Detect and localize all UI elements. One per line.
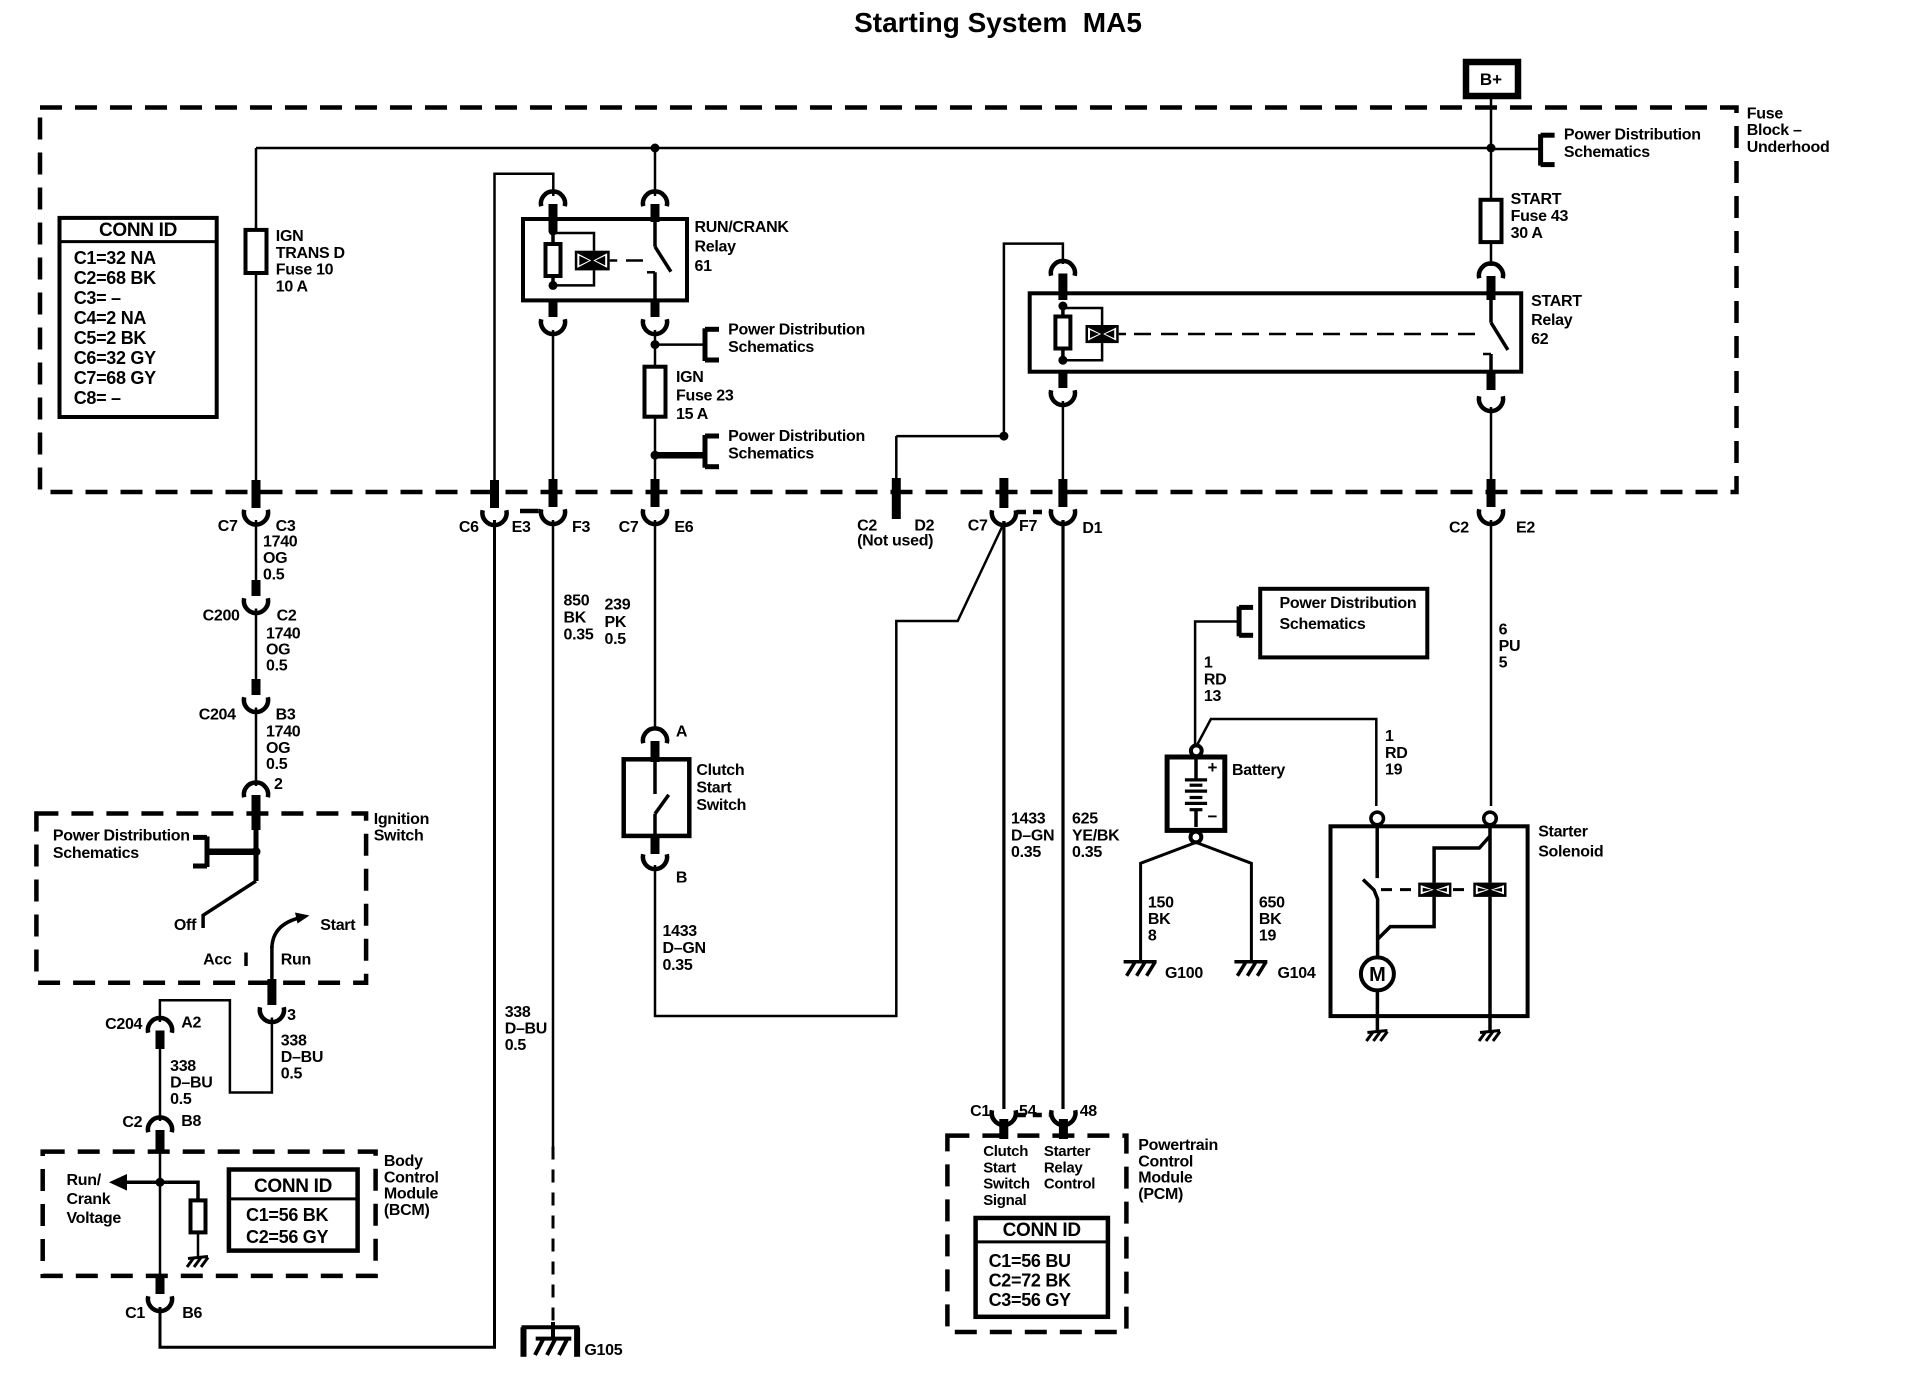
svg-text:338: 338: [281, 1033, 307, 1050]
svg-text:Clutch: Clutch: [696, 762, 744, 779]
svg-text:G104: G104: [1278, 965, 1316, 982]
svg-text:(BCM): (BCM): [384, 1202, 430, 1219]
svg-text:338: 338: [170, 1058, 196, 1075]
svg-text:Schematics: Schematics: [728, 446, 814, 463]
svg-text:C3=56 GY: C3=56 GY: [989, 1290, 1071, 1310]
svg-text:Acc: Acc: [203, 951, 232, 968]
svg-text:C3: C3: [276, 518, 296, 535]
svg-text:Schematics: Schematics: [53, 845, 139, 862]
svg-text:C204: C204: [199, 707, 236, 724]
svg-text:0.5: 0.5: [170, 1091, 192, 1108]
svg-text:6: 6: [1499, 621, 1508, 638]
svg-text:C1=56 BU: C1=56 BU: [989, 1251, 1071, 1271]
svg-text:E3: E3: [512, 519, 531, 536]
svg-text:Schematics: Schematics: [1280, 616, 1366, 633]
svg-text:C2: C2: [277, 608, 297, 625]
svg-text:338: 338: [505, 1004, 531, 1021]
svg-text:Start: Start: [983, 1159, 1016, 1176]
svg-text:Start: Start: [320, 917, 356, 934]
svg-text:Underhood: Underhood: [1747, 139, 1830, 156]
svg-text:3: 3: [287, 1007, 296, 1024]
svg-text:C7=68 GY: C7=68 GY: [74, 368, 156, 388]
svg-text:1433: 1433: [1011, 811, 1046, 828]
svg-text:OG: OG: [263, 550, 287, 567]
svg-text:Run/: Run/: [67, 1172, 102, 1189]
svg-text:Power Distribution: Power Distribution: [728, 322, 865, 339]
svg-text:C2=56 GY: C2=56 GY: [246, 1227, 328, 1247]
svg-text:Signal: Signal: [983, 1192, 1026, 1209]
svg-text:0.35: 0.35: [1011, 844, 1041, 861]
svg-text:C3= –: C3= –: [74, 288, 121, 308]
svg-text:0.5: 0.5: [505, 1037, 527, 1054]
svg-text:Module: Module: [1138, 1170, 1193, 1187]
svg-text:Switch: Switch: [983, 1176, 1030, 1193]
svg-text:A2: A2: [181, 1015, 201, 1032]
svg-text:C1: C1: [125, 1305, 145, 1322]
svg-text:Switch: Switch: [696, 797, 746, 814]
svg-text:Solenoid: Solenoid: [1538, 844, 1603, 861]
svg-text:19: 19: [1385, 762, 1403, 779]
svg-text:1: 1: [1385, 728, 1394, 745]
svg-text:Relay: Relay: [1531, 312, 1573, 329]
svg-text:C4=2 NA: C4=2 NA: [74, 308, 147, 328]
svg-text:OG: OG: [266, 642, 290, 659]
svg-text:1: 1: [1204, 655, 1213, 672]
svg-text:13: 13: [1204, 688, 1222, 705]
svg-text:C2=68 BK: C2=68 BK: [74, 268, 156, 288]
svg-text:START: START: [1531, 293, 1582, 310]
svg-text:C2: C2: [1449, 520, 1469, 537]
svg-text:D–BU: D–BU: [281, 1049, 323, 1066]
svg-text:625: 625: [1072, 811, 1098, 828]
svg-text:0.35: 0.35: [564, 627, 594, 644]
svg-text:30 A: 30 A: [1511, 225, 1544, 242]
svg-text:Crank: Crank: [67, 1191, 111, 1208]
svg-text:IGN: IGN: [276, 228, 304, 245]
svg-text:8: 8: [1148, 928, 1157, 945]
svg-text:10 A: 10 A: [276, 278, 309, 295]
svg-text:Ignition: Ignition: [374, 811, 429, 828]
svg-text:C6: C6: [459, 519, 479, 536]
svg-text:BK: BK: [564, 610, 587, 627]
svg-text:150: 150: [1148, 894, 1174, 911]
svg-text:Run: Run: [281, 951, 311, 968]
svg-text:C6=32 GY: C6=32 GY: [74, 348, 156, 368]
svg-text:Relay: Relay: [1044, 1159, 1083, 1176]
svg-text:Battery: Battery: [1232, 762, 1285, 779]
svg-text:Block –: Block –: [1747, 122, 1802, 139]
svg-text:Clutch: Clutch: [983, 1143, 1028, 1160]
svg-text:Powertrain: Powertrain: [1138, 1137, 1218, 1154]
svg-text:1740: 1740: [263, 534, 298, 551]
svg-text:C1: C1: [970, 1103, 990, 1120]
svg-text:B+: B+: [1480, 70, 1502, 89]
svg-text:Fuse 43: Fuse 43: [1511, 208, 1569, 225]
svg-text:START: START: [1511, 191, 1562, 208]
svg-text:0.5: 0.5: [281, 1066, 303, 1083]
svg-text:61: 61: [695, 258, 713, 275]
svg-text:D–BU: D–BU: [505, 1021, 547, 1038]
svg-text:Control: Control: [384, 1169, 439, 1186]
svg-text:Power Distribution: Power Distribution: [728, 428, 865, 445]
svg-text:C1=56 BK: C1=56 BK: [246, 1205, 328, 1225]
svg-text:C7: C7: [968, 518, 988, 535]
svg-text:RD: RD: [1204, 671, 1227, 688]
svg-text:+: +: [1208, 758, 1218, 777]
svg-text:Fuse: Fuse: [1747, 106, 1784, 123]
svg-text:19: 19: [1259, 928, 1277, 945]
svg-text:Control: Control: [1138, 1153, 1193, 1170]
svg-text:54: 54: [1019, 1103, 1037, 1120]
svg-text:Off: Off: [174, 917, 197, 934]
svg-text:YE/BK: YE/BK: [1072, 827, 1120, 844]
svg-text:Control: Control: [1044, 1176, 1095, 1193]
svg-text:239: 239: [605, 597, 631, 614]
svg-text:Schematics: Schematics: [728, 339, 814, 356]
svg-text:RD: RD: [1385, 745, 1408, 762]
svg-text:F7: F7: [1019, 518, 1037, 535]
svg-text:0.5: 0.5: [266, 756, 288, 773]
svg-text:BK: BK: [1259, 911, 1282, 928]
svg-text:M: M: [1369, 964, 1386, 986]
svg-text:Body: Body: [384, 1153, 423, 1170]
svg-text:Switch: Switch: [374, 828, 424, 845]
svg-text:B: B: [676, 870, 687, 887]
svg-text:5: 5: [1499, 655, 1508, 672]
svg-text:1740: 1740: [266, 724, 301, 741]
svg-text:15 A: 15 A: [676, 406, 709, 423]
svg-text:D1: D1: [1082, 520, 1102, 537]
svg-text:0.5: 0.5: [263, 566, 285, 583]
svg-text:650: 650: [1259, 894, 1285, 911]
svg-text:OG: OG: [266, 740, 290, 757]
svg-text:TRANS D: TRANS D: [276, 245, 345, 262]
svg-text:Starting System MA5: Starting System MA5: [854, 7, 1142, 38]
svg-text:B6: B6: [182, 1305, 202, 1322]
svg-text:C7: C7: [619, 519, 639, 536]
svg-text:F3: F3: [572, 519, 590, 536]
svg-text:C1=32 NA: C1=32 NA: [74, 248, 156, 268]
svg-text:Fuse 23: Fuse 23: [676, 388, 734, 405]
svg-text:BK: BK: [1148, 911, 1171, 928]
svg-text:CONN ID: CONN ID: [99, 220, 177, 241]
svg-text:0.5: 0.5: [266, 657, 288, 674]
svg-text:Start: Start: [696, 780, 732, 797]
svg-text:Power Distribution: Power Distribution: [1564, 126, 1701, 143]
svg-text:CONN ID: CONN ID: [254, 1176, 332, 1197]
svg-text:−: −: [1208, 807, 1218, 826]
svg-text:PU: PU: [1499, 638, 1521, 655]
svg-text:850: 850: [564, 593, 590, 610]
svg-text:Starter: Starter: [1044, 1143, 1091, 1160]
svg-text:48: 48: [1080, 1103, 1098, 1120]
svg-text:IGN: IGN: [676, 369, 704, 386]
svg-text:D–GN: D–GN: [1011, 827, 1054, 844]
svg-text:C8= –: C8= –: [74, 388, 121, 408]
svg-text:C204: C204: [105, 1016, 142, 1033]
svg-text:C2=72 BK: C2=72 BK: [989, 1270, 1071, 1290]
svg-text:G105: G105: [584, 1342, 622, 1359]
svg-text:Starter: Starter: [1538, 824, 1588, 841]
svg-text:0.35: 0.35: [663, 957, 693, 974]
svg-text:B8: B8: [181, 1113, 201, 1130]
svg-text:2: 2: [274, 776, 283, 793]
svg-text:B3: B3: [276, 707, 296, 724]
svg-text:C2: C2: [122, 1114, 142, 1131]
svg-text:1433: 1433: [663, 923, 698, 940]
svg-text:G100: G100: [1165, 965, 1203, 982]
svg-text:C200: C200: [203, 608, 240, 625]
svg-text:RUN/CRANK: RUN/CRANK: [695, 219, 790, 236]
svg-text:CONN ID: CONN ID: [1003, 1220, 1081, 1241]
svg-text:D–GN: D–GN: [663, 940, 706, 957]
svg-text:Fuse 10: Fuse 10: [276, 262, 334, 279]
svg-text:C7: C7: [218, 518, 238, 535]
svg-text:Voltage: Voltage: [67, 1210, 122, 1227]
svg-text:C5=2 BK: C5=2 BK: [74, 328, 147, 348]
svg-text:(PCM): (PCM): [1138, 1186, 1183, 1203]
svg-text:Power Distribution: Power Distribution: [1280, 595, 1417, 612]
svg-text:62: 62: [1531, 331, 1549, 348]
svg-text:PK: PK: [605, 614, 627, 631]
svg-text:Schematics: Schematics: [1564, 144, 1650, 161]
svg-text:1740: 1740: [266, 626, 301, 643]
svg-text:0.5: 0.5: [605, 631, 627, 648]
svg-text:A: A: [676, 724, 688, 741]
svg-text:0.35: 0.35: [1072, 844, 1102, 861]
svg-text:D–BU: D–BU: [170, 1075, 212, 1092]
svg-text:(Not used): (Not used): [857, 533, 933, 550]
svg-text:E6: E6: [674, 519, 693, 536]
svg-text:Module: Module: [384, 1186, 439, 1203]
svg-text:Relay: Relay: [695, 239, 737, 256]
svg-text:E2: E2: [1516, 520, 1535, 537]
svg-text:Power Distribution: Power Distribution: [53, 828, 190, 845]
